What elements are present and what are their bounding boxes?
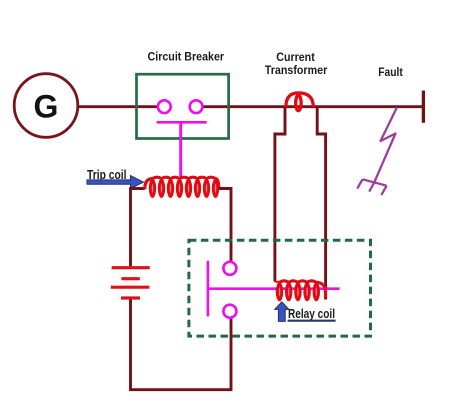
- fault lightning bolt: [374, 107, 397, 183]
- svg-text:G: G: [34, 89, 59, 125]
- breaker contact left: [158, 100, 171, 113]
- fault terminal bar: [422, 91, 425, 123]
- svg-text:Relay coil: Relay coil: [288, 306, 335, 321]
- relay coil RC: [276, 281, 326, 302]
- relay contact top: [223, 262, 236, 275]
- breaker contact right: [190, 100, 203, 113]
- fault ground prong right: [381, 186, 386, 195]
- svg-text:Circuit Breaker: Circuit Breaker: [148, 50, 225, 64]
- wire trip coil right to relay contact top: [219, 189, 231, 262]
- trip coil TC: [145, 177, 219, 198]
- generator G: [14, 74, 78, 138]
- relay box dashed: [189, 240, 371, 336]
- breaker actuator bar: [157, 121, 207, 124]
- relay contact bottom: [223, 305, 236, 318]
- relay switch pivot line: [207, 261, 210, 317]
- svg-text:Transformer: Transformer: [265, 63, 328, 77]
- current transformer primary coil: [286, 93, 313, 111]
- fault ground prong middle: [369, 182, 374, 191]
- wire breaker contact to fault terminal: [202, 105, 423, 108]
- circuit breaker box: [137, 74, 229, 138]
- relay coil pointer arrow: [275, 302, 289, 322]
- fault ground prong left: [357, 179, 362, 188]
- svg-text:Fault: Fault: [378, 65, 403, 79]
- fault ground crossbar: [363, 179, 387, 185]
- label Relay coil: [288, 306, 336, 321]
- wire battery bottom to bottom rail: [131, 300, 232, 390]
- svg-text:Current: Current: [276, 50, 315, 64]
- current transformer secondary right wire: [317, 107, 325, 300]
- breaker actuator stem to trip coil: [179, 122, 182, 177]
- trip coil pointer arrow: [87, 176, 144, 189]
- wire battery top to trip coil left: [131, 189, 145, 267]
- battery B1: [111, 268, 150, 298]
- label Current Transformer: [265, 50, 328, 77]
- relay armature line: [208, 287, 340, 290]
- wire generator to breaker contact: [78, 105, 159, 108]
- current transformer secondary left wire: [275, 107, 285, 282]
